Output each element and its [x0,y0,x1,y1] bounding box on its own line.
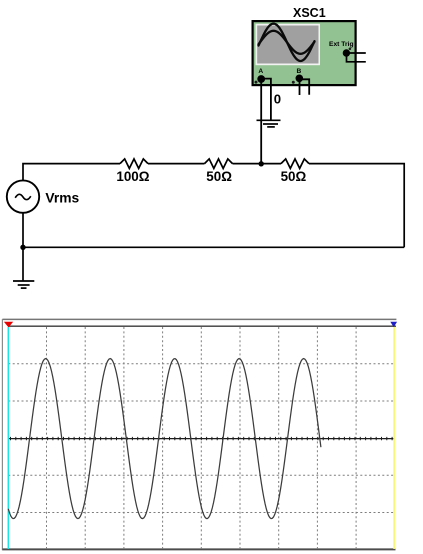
cursor 1 marker (red triangle) [4,322,13,328]
terminal Ext Trig [343,48,352,57]
junction node between R2 and R3 [259,161,264,166]
wire channel A down to node [260,79,262,164]
resistor R2 50ohm [205,159,233,169]
net label 0 [274,91,281,106]
oscilloscope U1 label XSC1 [293,6,326,20]
svg-text:50Ω: 50Ω [206,169,232,184]
resistor R3 50ohm [281,159,309,169]
label 100ohm [116,169,149,184]
graticule grid vertical dashed lines [47,327,357,549]
graticule grid horizontal dashed lines [8,364,394,513]
ground GND at source [13,281,34,288]
cursor 1 line (cyan) [7,327,9,549]
svg-text:50Ω: 50Ω [281,169,307,184]
wire R3 to right corner and down [309,164,404,248]
terminal A [255,75,266,84]
source sine symbol [15,194,31,199]
label A (channel A terminal) [258,68,263,75]
svg-text:A: A [258,68,263,75]
cursor 2 marker (blue triangle) [390,322,397,327]
svg-text:Ext Trig: Ext Trig [329,41,354,48]
wire source bottom down to ground [22,213,24,281]
terminal B [292,75,303,84]
label 50ohm R2 [206,169,232,184]
wire R2 to R3 [233,163,282,165]
oscilloscope XSC1 screen waveform [259,24,315,61]
time axis with tick marks [8,437,394,440]
label Ext Trig [329,41,354,48]
wire B right stub [299,79,309,95]
ground GND near oscilloscope [257,120,281,127]
wire Ext Trig hook [347,55,366,62]
wire B left stub down [299,78,301,95]
svg-text:B: B [297,68,302,75]
label B (channel B terminal) [297,68,302,75]
oscilloscope XSC1 screen [256,24,321,65]
svg-text:Vrms: Vrms [45,190,79,205]
channel A waveform trace [8,359,321,519]
junction node at source bottom [20,245,25,250]
svg-text:100Ω: 100Ω [116,169,149,184]
source V1 Vrms circle [7,180,39,212]
resistor R1 100ohm [120,159,148,169]
wire R1 to R2 [148,163,205,165]
wire Ext Trig stub right [348,52,366,54]
svg-text:0: 0 [274,91,281,106]
wire top left segment (source to R1) [23,164,120,181]
label 50ohm R3 [281,169,307,184]
svg-text:XSC1: XSC1 [293,6,326,20]
label Vrms [45,190,79,205]
oscilloscope display panel frame [2,319,396,550]
wire A to ground hook [261,79,271,120]
wire bottom return [23,246,404,248]
cursor 2 line (yellow) [393,327,395,549]
oscilloscope XSC1 body [253,21,356,85]
